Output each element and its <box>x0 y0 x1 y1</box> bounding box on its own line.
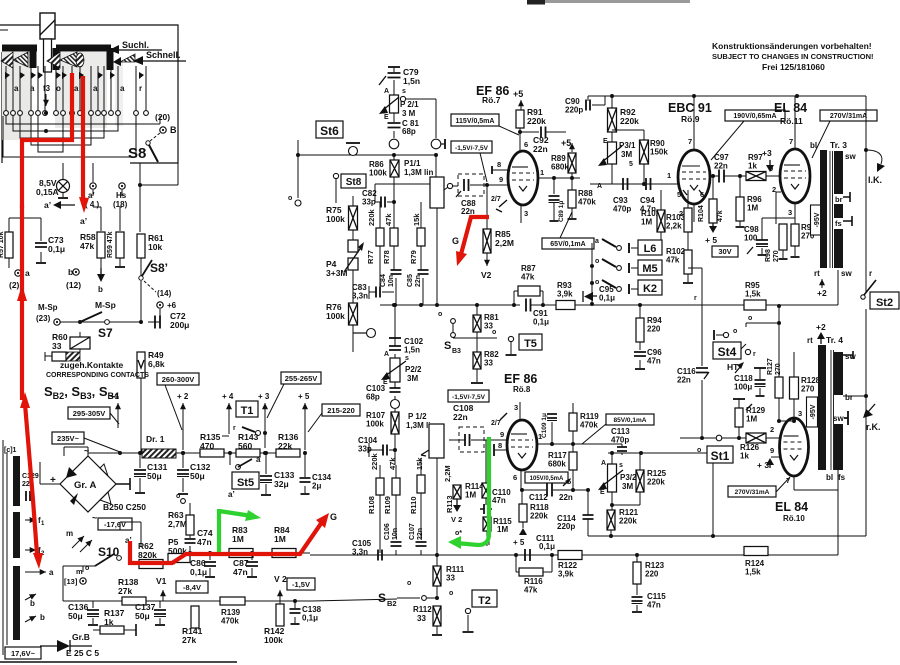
plate row Ro8 <box>537 443 622 445</box>
resistor R112 33 <box>413 605 442 635</box>
pin 2/7 Ro7 <box>491 196 507 212</box>
red trace G mid <box>460 217 489 258</box>
contact wiper <box>110 72 115 79</box>
svg-text:R127: R127 <box>767 358 774 375</box>
svg-text:1M: 1M <box>746 415 757 424</box>
svg-text:220p: 220p <box>557 522 575 531</box>
svg-text:1k: 1k <box>740 452 749 461</box>
relay frame <box>40 13 55 72</box>
svg-text:22n: 22n <box>677 376 691 385</box>
arrow +2 <box>177 392 189 455</box>
arrow +5 <box>298 392 310 455</box>
main B+ wire <box>88 452 120 454</box>
resistor R92 220k <box>608 96 640 142</box>
routing bus 1 <box>6 116 160 124</box>
svg-text:a: a <box>49 568 54 577</box>
svg-text:sw: sw <box>845 152 856 161</box>
svg-text:1M: 1M <box>747 204 758 213</box>
pot P4 3+3M <box>326 240 364 278</box>
hatched arrow Schnell contact <box>113 54 135 66</box>
boxed St8 <box>341 174 366 188</box>
svg-text:105V/0,5mA: 105V/0,5mA <box>530 476 564 482</box>
contact wire <box>135 66 137 110</box>
svg-text:7: 7 <box>688 137 692 146</box>
svg-text:+5: +5 <box>513 89 523 99</box>
svg-text:2/7: 2/7 <box>491 420 501 427</box>
label SB2 SB3 SB4 <box>44 384 119 401</box>
resistor R94 220 <box>636 305 662 350</box>
svg-text:S: S <box>378 591 386 605</box>
red trace left segment 1 <box>20 205 24 294</box>
winding edge line <box>3 440 7 655</box>
svg-text:1M: 1M <box>641 218 652 227</box>
routing bus 3 <box>20 116 104 138</box>
svg-text:Gr.B: Gr.B <box>72 632 90 642</box>
svg-text:6,8k: 6,8k <box>148 359 165 369</box>
svg-text:B250 C250: B250 C250 <box>103 502 146 512</box>
boxed St1 <box>707 446 733 463</box>
svg-text:85V/0,1mA: 85V/0,1mA <box>614 417 647 424</box>
pointer 235V <box>84 438 120 452</box>
svg-text:M5: M5 <box>642 263 657 275</box>
wire bus to Tr3 <box>837 270 839 305</box>
Schnell arrow <box>133 56 186 65</box>
terminal b 12 <box>66 267 81 290</box>
resistor R63 2,7M <box>168 493 194 535</box>
svg-text:270: 270 <box>773 250 780 262</box>
svg-text:[c]1: [c]1 <box>4 447 17 454</box>
boxed -17,6V <box>98 518 132 530</box>
switch feeder vertical <box>590 243 594 306</box>
pin 3 stem Ro10 <box>793 403 795 418</box>
svg-text:R109: R109 <box>383 496 392 514</box>
winding taps <box>25 516 54 622</box>
plate row Ro7 <box>538 177 580 179</box>
terminal o left <box>288 140 301 206</box>
svg-text:270: 270 <box>775 363 782 375</box>
svg-text:C107: C107 <box>409 523 416 540</box>
node dots <box>514 553 518 557</box>
svg-text:8: 8 <box>497 160 501 169</box>
svg-text:1,5n: 1,5n <box>404 346 420 355</box>
jack circle 2 <box>431 139 445 149</box>
svg-text:(14): (14) <box>157 289 172 298</box>
svg-text:2,7M: 2,7M <box>168 519 187 529</box>
resistor R49 6,8k <box>137 350 165 378</box>
contact terminal <box>54 111 59 116</box>
routing junction <box>44 129 48 133</box>
wire R61 S8prime <box>140 258 142 322</box>
arrow +1 <box>110 392 121 428</box>
svg-text:220: 220 <box>647 325 661 334</box>
boxed -1,5V <box>287 578 315 590</box>
svg-text:R59 47k: R59 47k <box>107 231 114 258</box>
red arrowhead G bottom <box>316 513 329 528</box>
hatched cone contact 1 <box>1 52 13 68</box>
svg-text:E: E <box>384 114 389 121</box>
contact wiper <box>38 72 43 79</box>
wire under red <box>130 546 310 564</box>
node <box>393 303 397 307</box>
red trace keyboard 2 <box>81 76 85 200</box>
wire a4 down <box>93 163 101 231</box>
svg-text:M-Sp: M-Sp <box>38 303 58 312</box>
svg-text:o: o <box>492 329 496 336</box>
routing bus 5 <box>38 116 63 152</box>
svg-text:22n: 22n <box>415 275 422 287</box>
boxed T5 <box>519 334 542 350</box>
label sw Tr4 <box>843 351 856 361</box>
svg-text:47k: 47k <box>717 210 724 222</box>
tick St4 <box>741 344 746 349</box>
resistor R58 47k <box>80 232 105 258</box>
svg-text:zugeh.Kontakte: zugeh.Kontakte <box>60 360 124 370</box>
contact terminal <box>96 111 101 116</box>
svg-text:V1: V1 <box>156 576 167 586</box>
arrow +3 <box>258 392 270 455</box>
svg-text:295-305V: 295-305V <box>73 409 106 418</box>
arrow +2 Tr4 <box>816 322 826 344</box>
svg-text:47n: 47n <box>647 357 661 366</box>
capacitor C84 10n <box>380 246 402 305</box>
node <box>393 448 397 452</box>
resistor R125 220k <box>636 453 667 505</box>
V1 arrow <box>156 576 167 601</box>
node dots <box>550 442 554 446</box>
node dot <box>118 451 122 455</box>
svg-text:2: 2 <box>770 425 774 434</box>
keyboard switch unit outline <box>0 25 178 163</box>
svg-text:10n: 10n <box>388 275 395 287</box>
boxed St6 <box>316 121 343 138</box>
svg-text:K2: K2 <box>643 283 657 295</box>
wire P3/2 bottom <box>612 492 640 510</box>
capacitor C73 0,1u <box>35 218 65 262</box>
svg-text:CORRESPONDING CONTACTS: CORRESPONDING CONTACTS <box>46 372 149 379</box>
capacitor C94 47n <box>640 178 656 214</box>
switch M5 <box>595 258 638 273</box>
pointer 215-220 <box>308 413 322 432</box>
terminal a-prime 4 <box>85 183 100 209</box>
trimmer P3/1 3M <box>597 138 636 190</box>
contact terminal <box>43 111 48 116</box>
pin 9 Ro10 <box>770 446 780 457</box>
resistor R85 2,2M <box>483 187 514 253</box>
node <box>610 451 614 455</box>
svg-text:St4: St4 <box>718 345 737 359</box>
svg-text:s: s <box>402 88 406 95</box>
pointer -1,5V <box>480 153 487 182</box>
svg-text:B3: B3 <box>452 348 461 355</box>
bridge dc wire <box>40 462 60 484</box>
red trace keyboard 1 <box>22 73 72 208</box>
transformer Tr3 winding middle <box>834 204 843 218</box>
capacitor C90 220p <box>565 96 605 115</box>
node dots <box>520 488 524 492</box>
svg-text:220k: 220k <box>370 452 379 470</box>
boxed T2 <box>472 590 497 607</box>
svg-text:+ 5: + 5 <box>298 392 310 401</box>
pot P5 500k <box>168 537 190 563</box>
thick contact rail left <box>2 48 37 68</box>
T5 terminal stub <box>506 336 517 355</box>
red trace left segment 2 <box>20 299 24 400</box>
choke Dr.1 <box>120 434 200 458</box>
label C88 22n <box>461 199 476 216</box>
capacitor C111 0,1u <box>525 534 555 561</box>
boxed -8,4V <box>176 581 208 593</box>
red trace left segment 3 <box>25 404 37 554</box>
boxed T1 <box>236 401 258 417</box>
wire y490 <box>522 489 588 491</box>
hatched cone contact 4 <box>60 52 77 67</box>
svg-text:2,2M: 2,2M <box>495 238 514 248</box>
svg-text:o: o <box>733 328 737 335</box>
svg-text:50μ: 50μ <box>68 611 83 621</box>
resistor R95 1,5k <box>640 281 838 310</box>
pot P1/2 1,3M lin <box>406 412 444 458</box>
capacitor C96 47n <box>634 348 662 369</box>
wires R77-79 <box>380 202 421 292</box>
svg-text:30V: 30V <box>718 247 731 256</box>
svg-text:m: m <box>66 529 73 538</box>
node dot <box>139 320 143 324</box>
wire y184 <box>375 183 430 185</box>
wire stub top-left <box>0 29 8 31</box>
pointer 190V <box>711 121 744 160</box>
svg-text:680k: 680k <box>551 163 569 172</box>
capacitor C110 47n <box>480 488 511 514</box>
contact wiper <box>139 72 144 79</box>
R87 verticals <box>514 291 543 305</box>
resistor R115 1M <box>483 517 512 546</box>
svg-text:220k: 220k <box>527 116 546 126</box>
svg-text:47k: 47k <box>524 586 538 595</box>
resistor R123 220 <box>633 555 665 595</box>
contact terminal <box>89 111 94 116</box>
svg-text:8: 8 <box>498 441 502 450</box>
wire L6 bus <box>591 303 593 305</box>
green arrow bottom left <box>219 511 252 516</box>
green arrow middle <box>448 536 461 549</box>
svg-text:65V/0,1mA: 65V/0,1mA <box>550 241 585 248</box>
wire St2 down <box>865 309 867 536</box>
svg-text:-17,6V: -17,6V <box>104 520 126 529</box>
diode Gr.B <box>40 632 92 652</box>
red arrowhead down 3 <box>33 553 43 569</box>
svg-text:33p: 33p <box>358 445 372 454</box>
svg-text:22n: 22n <box>453 412 468 422</box>
capacitor C109 1u <box>541 413 557 444</box>
svg-text:A: A <box>384 88 389 95</box>
m contact arrows <box>66 529 92 552</box>
svg-text:235V~: 235V~ <box>57 434 80 443</box>
capacitor C98 100u <box>744 225 768 255</box>
green underlying wire <box>488 440 490 545</box>
stem 7 Ro10 <box>786 476 838 490</box>
svg-text:2/7: 2/7 <box>491 196 501 203</box>
contact wire <box>117 66 119 110</box>
lamp rating label <box>36 178 59 197</box>
svg-text:220k: 220k <box>619 517 637 526</box>
resistor R87 47k <box>514 264 543 296</box>
svg-text:[13]: [13] <box>64 577 78 586</box>
label EF86 Ro7 <box>476 84 509 105</box>
switch S10 <box>85 545 121 572</box>
svg-text:3M: 3M <box>407 374 418 383</box>
svg-text:1k: 1k <box>748 162 757 171</box>
svg-text:P3/2: P3/2 <box>620 473 637 482</box>
red arrowhead G mid <box>456 251 467 266</box>
svg-text:27k: 27k <box>182 635 196 645</box>
f3 arrow <box>43 94 49 106</box>
svg-text:+2: +2 <box>816 322 826 332</box>
svg-text:(23): (23) <box>36 314 51 323</box>
svg-text:bl: bl <box>810 141 817 150</box>
pin 8 Ro8 <box>494 441 507 456</box>
wire R135-R143 <box>224 452 300 454</box>
svg-text:+2: +2 <box>817 288 827 298</box>
green trace middle <box>456 437 489 545</box>
pin 2/7 Ro8 <box>491 413 507 427</box>
svg-text:-1,5V: -1,5V <box>292 580 310 589</box>
contact wiper <box>79 72 84 79</box>
capacitor C83 3,3n <box>352 283 394 301</box>
svg-text:a: a <box>14 84 19 93</box>
label EL84 Ro10 <box>775 500 808 523</box>
svg-text:6: 6 <box>524 140 528 149</box>
svg-text:17,6V~: 17,6V~ <box>11 649 36 658</box>
svg-text:33: 33 <box>484 359 493 368</box>
svg-text:5: 5 <box>629 161 633 168</box>
capacitor C137 50u <box>135 601 166 625</box>
svg-text:C84: C84 <box>380 274 387 287</box>
svg-text:7: 7 <box>789 137 793 146</box>
svg-text:rt: rt <box>814 269 820 278</box>
node dot r <box>700 436 704 440</box>
svg-text:-1,5V/-7,5V: -1,5V/-7,5V <box>455 145 489 152</box>
bus right segment <box>580 304 640 306</box>
capacitor C134 2u <box>300 453 332 494</box>
svg-text:33: 33 <box>52 341 62 351</box>
label fs Tr3 <box>835 216 852 228</box>
node <box>610 503 614 507</box>
contact wire <box>12 66 14 110</box>
resistor R88 470k <box>568 178 597 219</box>
svg-text:3: 3 <box>798 409 802 418</box>
contact wiper <box>98 72 103 79</box>
svg-text:(12): (12) <box>66 280 81 290</box>
svg-text:a: a <box>120 84 125 93</box>
pointer 85V <box>582 424 606 444</box>
+5 feed R118 <box>513 528 527 547</box>
svg-text:3+3M: 3+3M <box>326 268 348 278</box>
svg-text:R112: R112 <box>413 605 432 614</box>
svg-text:a: a <box>595 238 599 245</box>
svg-text:P2/2: P2/2 <box>405 365 422 374</box>
svg-text:0,1μ: 0,1μ <box>48 244 65 254</box>
boxed 260-300V <box>157 373 199 385</box>
svg-text:Tr. 4: Tr. 4 <box>826 335 843 345</box>
pin 8 Ro7 <box>492 160 508 174</box>
wire R91 bottom <box>519 128 521 132</box>
node dots <box>609 534 613 538</box>
contact terminal <box>29 111 34 116</box>
svg-text:EF 86: EF 86 <box>504 372 537 386</box>
pointer 115V <box>499 126 519 135</box>
node dots <box>512 303 516 307</box>
boxed -95V tag2 <box>807 397 818 427</box>
svg-text:9: 9 <box>499 175 503 184</box>
svg-text:200μ: 200μ <box>170 320 189 330</box>
bridge rectifier Gr.A <box>50 446 116 523</box>
svg-text:+5: +5 <box>561 138 571 148</box>
svg-text:100k: 100k <box>326 214 345 224</box>
svg-text:5: 5 <box>677 190 681 199</box>
boxed 105V/0,5mA <box>525 472 568 483</box>
tube EL84 Ro11 <box>780 149 810 203</box>
svg-text:3,3n: 3,3n <box>352 548 368 557</box>
svg-text:220: 220 <box>645 570 659 579</box>
capacitor C91 0,1u <box>526 299 556 327</box>
svg-text:o*: o* <box>455 530 462 537</box>
svg-text:3,3n: 3,3n <box>352 292 368 301</box>
label sw mid Tr4 <box>833 411 848 425</box>
svg-text:Rö.9: Rö.9 <box>681 114 700 124</box>
resistor R97 1k <box>746 153 781 181</box>
svg-text:Rö.8: Rö.8 <box>513 385 531 394</box>
routing junction <box>70 115 74 119</box>
svg-text:sw: sw <box>833 414 844 423</box>
V2 arrow bottom <box>274 574 287 601</box>
capacitor C104 33p <box>358 436 395 457</box>
tube EBC91 <box>678 150 710 204</box>
svg-text:215-220: 215-220 <box>327 406 355 415</box>
svg-text:L6: L6 <box>644 243 657 255</box>
svg-text:R78: R78 <box>382 250 391 264</box>
contact terminal <box>134 111 139 116</box>
svg-text:V 2: V 2 <box>274 574 287 584</box>
contact wire <box>110 66 112 110</box>
svg-text:22n: 22n <box>714 162 728 171</box>
capacitor C114 220p <box>557 490 594 536</box>
capacitor C136 50u <box>68 601 99 625</box>
svg-text:0,1μ: 0,1μ <box>539 542 555 551</box>
svg-text:V2: V2 <box>481 270 492 280</box>
transformer Tr3 winding top <box>834 151 843 194</box>
main bus <box>380 304 520 306</box>
hatched cone contact 3 <box>47 52 60 68</box>
svg-text:150k: 150k <box>650 148 668 157</box>
svg-text:50μ: 50μ <box>190 471 205 481</box>
wire P1/2 down <box>436 458 438 555</box>
svg-text:2,2M: 2,2M <box>443 465 452 482</box>
jack left of St8 <box>333 173 338 203</box>
svg-text:1: 1 <box>667 171 671 180</box>
terminal b arrow <box>97 268 105 294</box>
svg-text:+ 2: + 2 <box>177 392 189 401</box>
wire Hs down <box>120 190 122 231</box>
svg-text:270V/31mA: 270V/31mA <box>830 113 867 120</box>
svg-text:br: br <box>845 393 853 402</box>
rK arrow <box>863 404 881 432</box>
svg-text:Tr. 3: Tr. 3 <box>830 140 847 150</box>
svg-text:470k: 470k <box>578 198 596 207</box>
svg-text:o: o <box>176 493 180 500</box>
svg-text:A: A <box>601 460 606 467</box>
lamp wires <box>62 163 64 197</box>
svg-text:Gr. A: Gr. A <box>74 480 96 491</box>
